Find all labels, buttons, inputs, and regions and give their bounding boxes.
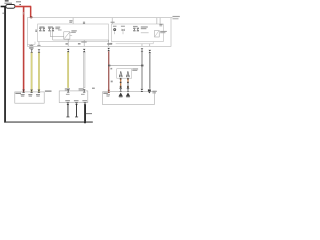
junction block lower-right [103,92,155,105]
wire w2 yellow [38,53,40,92]
ground bar g2 [75,116,78,119]
label pin w4 [78,43,81,44]
wire ground run (black, vertical left) [4,6,6,122]
label glyph B fuses [133,26,138,27]
connector on red wire [22,12,25,14]
label lower-left box right [45,90,52,92]
label above center box 1 [65,88,70,90]
label lower-right box name [103,93,108,94]
fuse glyph A2 [43,28,45,31]
pin g3 [84,103,87,106]
wire orange 2 [127,78,130,92]
wire fuse A4 bus to pin w5 [53,31,109,40]
label pin w3 [66,43,68,44]
label relay K2 [160,31,167,33]
glyph box B lamp [113,28,116,31]
stub w7 [149,44,152,47]
label left of lower-right box [92,88,95,89]
wire splice branch to w6 [109,64,142,67]
stub w2 under box A [38,42,41,47]
pin stub rail to box B left [111,18,114,24]
label pin w1 below [29,47,33,49]
label lower-left box name [15,93,21,94]
junction block lower-center [59,91,88,103]
wire w4 white [83,52,85,87]
junction dot red to rail [30,16,33,18]
label glyph B bowtie [121,26,125,27]
stub w6 [141,44,144,47]
connector on w1 [30,49,33,52]
label fuse group 1 [39,26,44,27]
connector w5 entry [107,90,110,93]
ground bus bottom [4,122,93,123]
rail tail right [171,16,173,19]
inner box A [38,24,109,42]
wire box B internal [141,32,149,35]
splice on w5 [108,65,110,67]
relay K2 small [155,31,160,38]
connector on black wire [2,13,4,14]
junction block lower-left [15,92,44,103]
wire fuse A3 to relay [50,31,63,37]
connector on w4 [83,49,86,52]
label fuse rating text [4,0,12,4]
label mid-right box [132,68,138,71]
connector w2 entry [38,90,41,93]
relay bottom stub to w3 [67,39,70,46]
pin stub rail to box B right 2 [159,18,162,24]
label pin stub A [69,20,72,23]
stubs under box B glyphs [115,31,123,34]
connector w7 entry [148,89,151,93]
label relay right [71,30,76,33]
pin g1 [67,103,70,106]
label box B right top [159,24,162,26]
stub w1 under box A [30,44,33,46]
module box outer (underhood fuse/relay box) [27,18,171,47]
wire w1 yellow [31,53,33,92]
label center box entries inside [66,94,85,95]
label pin red [21,94,25,97]
wire w6 dark [142,52,143,89]
label pin w5 [107,43,112,45]
connector on w6 [141,48,144,51]
fuse glyph A3 [48,28,50,31]
label right of w7 [152,91,156,94]
stub bar w1 [27,42,35,45]
pin mark between boxes [110,43,112,44]
wire orange 1 [119,78,122,92]
ground tick branch [86,112,92,115]
inner box B [112,24,164,42]
label center box pins bottom [65,100,87,101]
coil glyph M1 [119,71,123,77]
fuse glyph A1 [39,28,41,31]
connector w6 entry [141,89,144,92]
label fuse group 2 [48,26,53,27]
glyph box B bowtie [122,29,125,31]
label pin y1 [28,94,32,97]
connector orange1 inner [119,93,123,97]
label 2 near box A left [35,30,37,32]
wire g1 black [67,105,70,117]
label pin w1 [29,45,33,46]
label pin w2 [37,45,40,46]
wire w3 yellow [67,52,69,87]
label box B text [141,26,148,29]
label right of w5 [110,68,112,70]
connector on w5 [107,48,110,51]
fuse glyph B2 [137,28,139,31]
wire red branch down to fuse box rail [30,6,32,18]
connector orange2 inner [126,93,130,97]
inner box B sub-bar [116,42,154,44]
wire red main vertical to junction block [23,6,25,92]
label under red entry [106,94,110,97]
fuse glyph A4 [52,28,54,31]
label under bus near w4 [81,41,86,42]
fuse F [6,5,15,9]
pin stub rail to box B right 1 [156,18,159,24]
label pin number box A top [83,22,85,24]
connector w3 entry [67,89,70,92]
connector on w3 [67,49,70,52]
connector on w2 [38,49,41,52]
label wire color RED [16,1,21,2]
wire g2 black [75,105,78,117]
connector w1 entry [30,90,33,93]
label relay name 2 [58,30,62,31]
wire w5 maroon [108,51,109,92]
coil glyph M2 [126,71,130,77]
wire hot feed (red, horizontal) [15,6,31,8]
junction tick on red wire [20,4,21,5]
connector w4 entry [83,89,86,92]
pin stub rail to box A [72,18,75,24]
junction dot ground bus [84,121,86,123]
wire battery feed (black, horizontal) [1,6,6,8]
relay right pin stubs [70,33,72,36]
label pin y2 [36,94,40,97]
wire g3 black thick [84,105,86,123]
label rail right end [173,16,180,19]
label relay name [55,27,60,30]
connector on w7 [149,50,152,53]
connector red entry [22,90,25,93]
fuse glyph B1 [133,28,135,31]
label pin box B left top [111,22,115,23]
stub w5 [107,40,110,46]
pin g2 [75,103,78,106]
ground bar g1 [66,116,69,119]
splice on w6 [141,65,143,67]
label above center box 2 [79,88,84,90]
label right of w5 low [111,81,113,83]
label glyph B lamp [113,26,117,27]
module box mid-right [117,69,132,79]
stub w4 from bus [83,40,86,46]
wire w7 dark [149,53,150,89]
relay K1 [64,32,70,39]
